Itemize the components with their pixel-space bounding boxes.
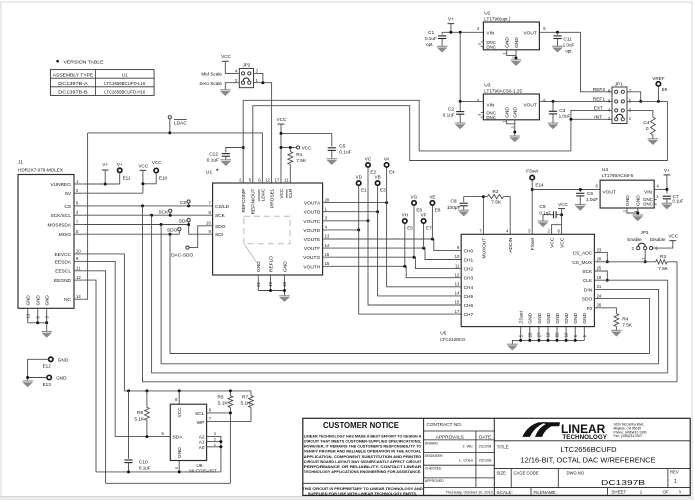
- wire JP3 pin2 to CS_MUX: [644, 250, 646, 262]
- svg-text:0.1uF: 0.1uF: [207, 157, 219, 163]
- svg-text:VF: VF: [421, 212, 427, 217]
- svg-text:L. Chen: L. Chen: [459, 457, 473, 462]
- regulator U3 LT1790ACS6-1.25: [477, 82, 546, 120]
- svg-text:GND: GND: [177, 447, 183, 458]
- svg-text:REFCOMP: REFCOMP: [241, 189, 247, 213]
- svg-text:V+: V+: [117, 162, 123, 167]
- terminal E10 VCC: [143, 160, 168, 184]
- wire JP1 pin3 to C4: [627, 110, 653, 117]
- title block frame: [303, 418, 690, 495]
- svg-text:SCL: SCL: [195, 411, 205, 417]
- svg-text:11: 11: [455, 263, 460, 268]
- svg-text:R5: R5: [217, 395, 223, 401]
- wire R3 to CS bus: [667, 262, 677, 382]
- svg-text:20: 20: [597, 257, 602, 262]
- svg-text:E8: E8: [435, 208, 441, 213]
- svg-text:LT1790ACS6-5: LT1790ACS6-5: [602, 173, 634, 178]
- ground under JP2: [220, 90, 231, 96]
- svg-text:5.1K: 5.1K: [218, 400, 229, 406]
- svg-text:SCK: SCK: [582, 269, 593, 275]
- wire U2 GND pins to ground: [507, 50, 516, 56]
- drawing number fields: [497, 469, 682, 494]
- svg-text:17: 17: [275, 177, 280, 182]
- svg-text:LTC2656BCUFD: LTC2656BCUFD: [561, 445, 617, 454]
- resistor C4 0 ohm: [643, 117, 655, 139]
- svg-text:VERSION TABLE: VERSION TABLE: [64, 59, 104, 64]
- svg-text:0.1uF: 0.1uF: [673, 199, 684, 204]
- op-amp U1 LTC2656BCUFD: [206, 169, 323, 275]
- capacitor C2 0.1uF: [443, 101, 465, 123]
- terminal E5 VH: [402, 212, 414, 230]
- test point LDAC: [168, 116, 187, 133]
- svg-text:12: 12: [265, 177, 270, 182]
- logo Linear Technology: [522, 422, 646, 441]
- svg-text:E13: E13: [43, 382, 52, 387]
- svg-text:C8: C8: [450, 199, 456, 205]
- ground under C9: [538, 221, 548, 227]
- test point CS: [180, 200, 190, 206]
- svg-text:12: 12: [76, 275, 81, 280]
- svg-text:2/21/08: 2/21/08: [479, 445, 492, 449]
- svg-text:DC1397B: DC1397B: [601, 478, 645, 487]
- svg-text:GND: GND: [514, 37, 520, 48]
- svg-text:26: 26: [597, 303, 602, 308]
- wire JP1 EXT INT to REFCOMP route: [571, 110, 612, 119]
- svg-text:VOUT: VOUT: [523, 30, 536, 36]
- connector J1 HDR2X7-079-MOLEX: [18, 160, 84, 323]
- svg-text:24LC025-I/ST: 24LC025-I/ST: [188, 469, 217, 474]
- wire VOUTB to VB: [323, 211, 378, 213]
- svg-text:GND: GND: [564, 312, 570, 323]
- svg-text:DNC: DNC: [486, 115, 496, 120]
- svg-text:21: 21: [597, 284, 602, 289]
- svg-text:CH5: CH5: [464, 294, 474, 300]
- svg-text:E9: E9: [662, 87, 668, 92]
- svg-text:CLK: CLK: [583, 278, 593, 284]
- svg-text:CS: CS: [64, 204, 71, 210]
- svg-text:E12: E12: [43, 364, 52, 369]
- capacitor C8 100pF: [447, 197, 468, 211]
- svg-text:C9: C9: [539, 204, 545, 210]
- svg-text:VE: VE: [429, 194, 435, 199]
- svg-text:VOUTG: VOUTG: [303, 255, 320, 261]
- terminal E14 FSset: [526, 169, 544, 235]
- svg-text:PROSEL: PROSEL: [270, 188, 276, 208]
- svg-text:23: 23: [597, 247, 602, 252]
- power VCC above U5: [558, 202, 568, 234]
- svg-text:13: 13: [455, 282, 460, 287]
- svg-text:21: 21: [256, 281, 261, 286]
- resistor R1 7.5K: [288, 148, 307, 184]
- wire VOUTG to VG and CH2: [323, 257, 462, 268]
- svg-text:7.5K: 7.5K: [296, 158, 307, 164]
- wire REF/IN-OUT route to VREF: [253, 101, 668, 183]
- svg-text:APPROVED: APPROVED: [425, 479, 444, 483]
- svg-text:18: 18: [546, 332, 551, 337]
- wire VA to CH4: [387, 167, 462, 287]
- wire MUXOUT net: [464, 197, 484, 235]
- wire EEPROM VCC rail: [124, 390, 251, 392]
- svg-text:CAGE CODE: CAGE CODE: [514, 470, 539, 475]
- wire REFCOMP route to JP1 INT/EXT: [243, 100, 571, 183]
- wire MOSI-DIN bus: [161, 225, 658, 364]
- jumper JP2: [199, 62, 258, 87]
- svg-text:VA: VA: [384, 156, 391, 161]
- svg-text:GND: GND: [25, 295, 30, 306]
- regulator U4 LT1790ACS6-5: [595, 167, 659, 208]
- ground under C6: [575, 205, 586, 211]
- svg-text:SUPPLIED FOR USE WITH LINEAR T: SUPPLIED FOR USE WITH LINEAR TECHNOLOGY …: [308, 491, 417, 496]
- ground under R4: [611, 330, 622, 336]
- svg-text:GND: GND: [546, 312, 552, 323]
- svg-text:ENGINEER: ENGINEER: [425, 454, 443, 458]
- wire A2 A1 A0 to ground rail: [207, 436, 221, 472]
- svg-text:HDR2X7-079-MOLEX: HDR2X7-079-MOLEX: [18, 167, 63, 172]
- ground under J1: [42, 332, 53, 338]
- wire MISO net: [84, 233, 180, 235]
- svg-text:REF2: REF2: [593, 87, 606, 93]
- svg-text:GND: GND: [573, 312, 579, 323]
- wire MOSI/SDA to SDI net: [84, 224, 189, 226]
- svg-text:VOUTA: VOUTA: [304, 201, 321, 207]
- terminal E11 V+: [117, 162, 131, 184]
- power VCC above JP2: [221, 54, 239, 73]
- svg-text:CH0: CH0: [464, 248, 474, 254]
- svg-text:VC: VC: [365, 156, 372, 161]
- wire SCL row: [207, 413, 231, 483]
- capacitor C5: [328, 144, 352, 159]
- svg-text:EESDA: EESDA: [55, 259, 72, 265]
- svg-text:CS: CS: [180, 200, 187, 206]
- wire SCK net: [84, 214, 213, 216]
- svg-text:28: 28: [527, 332, 532, 337]
- svg-text:SCK/SCL: SCK/SCL: [50, 213, 71, 219]
- svg-text:REFIN/OUT: REFIN/OUT: [251, 188, 257, 214]
- svg-text:VCC: VCC: [277, 117, 287, 122]
- svg-text:SHEET: SHEET: [612, 490, 627, 495]
- svg-text:VIN: VIN: [486, 30, 495, 36]
- svg-text:GND: GND: [282, 261, 288, 272]
- wire VUNREG net: [84, 183, 120, 185]
- svg-text:25: 25: [597, 266, 602, 271]
- svg-text:1: 1: [674, 479, 677, 485]
- wire CS-R3 bus: [143, 206, 678, 382]
- svg-text:Disable: Disable: [650, 237, 666, 242]
- svg-text:14: 14: [455, 291, 460, 296]
- svg-text:VCC: VCC: [668, 234, 678, 239]
- U1 left pin labels: [206, 201, 230, 239]
- ground under E12 E13: [22, 381, 33, 387]
- svg-text:EESCL: EESCL: [55, 269, 71, 275]
- U1 right pin labels: [303, 197, 330, 270]
- svg-text:14: 14: [325, 243, 330, 248]
- svg-text:SDO: SDO: [215, 224, 226, 230]
- svg-text:E7: E7: [426, 226, 432, 231]
- svg-text:LTC2428CG: LTC2428CG: [440, 337, 466, 342]
- svg-text:GND: GND: [528, 312, 534, 323]
- svg-text:JP1: JP1: [615, 82, 623, 87]
- svg-text:VG: VG: [411, 194, 418, 199]
- svg-text:MOSI/SDA: MOSI/SDA: [48, 222, 72, 228]
- test point VCC right of R1: [297, 146, 312, 151]
- ground under C11: [552, 46, 563, 52]
- svg-text:CUSTOMER NOTICE: CUSTOMER NOTICE: [323, 420, 399, 430]
- svg-text:C12: C12: [209, 151, 218, 157]
- ground under U3: [510, 136, 521, 142]
- svg-text:J1: J1: [18, 160, 23, 166]
- svg-text:opt.: opt.: [426, 42, 434, 47]
- svg-text:ASSEMBLY TYPE: ASSEMBLY TYPE: [53, 72, 94, 78]
- svg-text:13: 13: [25, 313, 30, 318]
- capacitor C1 0.1uF opt: [425, 30, 446, 47]
- customer notice text: [302, 420, 423, 496]
- svg-text:NC: NC: [64, 297, 71, 303]
- wire JP2 pin2 to ground: [225, 83, 239, 90]
- svg-text:0.1uF: 0.1uF: [339, 150, 351, 156]
- svg-text:TECHNOLOGY APPLICATIONS ENGINE: TECHNOLOGY APPLICATIONS ENGINEERING FOR …: [304, 469, 422, 474]
- svg-text:MISO: MISO: [59, 232, 72, 238]
- svg-text:E14: E14: [535, 182, 544, 187]
- svg-text:3: 3: [477, 43, 481, 45]
- svg-text:DNC: DNC: [486, 44, 496, 49]
- svg-text:0: 0: [646, 126, 649, 132]
- wire VOUTC to VC: [323, 220, 368, 222]
- wire V+ rail to U2 VIN: [442, 31, 483, 33]
- svg-text:14: 14: [76, 294, 81, 299]
- wire VOUTE to VE and CH0: [323, 239, 462, 250]
- wire J1 ground bus: [28, 322, 47, 324]
- svg-text:2/21/08: 2/21/08: [479, 458, 492, 462]
- svg-text:C4: C4: [643, 120, 649, 126]
- svg-text:12/16-BIT, OCTAL DAC W/REFEREN: 12/16-BIT, OCTAL DAC W/REFERENCE: [521, 456, 656, 465]
- svg-text:DNC: DNC: [643, 202, 653, 207]
- svg-text:V+: V+: [664, 168, 670, 173]
- U5 bottom pins: [518, 310, 588, 340]
- wire 5V net: [84, 192, 143, 194]
- memory U6 24LC025-I/ST: [161, 391, 217, 474]
- ground under C1: [437, 46, 448, 52]
- ground under C2: [455, 123, 466, 129]
- approvals table text: [425, 422, 493, 495]
- terminal E3 VB: [375, 175, 387, 193]
- wire VG to VOUTG: [413, 205, 415, 257]
- svg-text:7.5K: 7.5K: [658, 266, 669, 272]
- svg-text:E1: E1: [361, 188, 367, 193]
- svg-text:U3: U3: [484, 82, 490, 88]
- svg-text:24: 24: [597, 293, 602, 298]
- svg-text:5.1K: 5.1K: [241, 400, 252, 406]
- svg-text:APPROVALS: APPROVALS: [436, 434, 464, 439]
- wire EESCL net: [84, 271, 106, 484]
- svg-text:JP3: JP3: [641, 230, 649, 235]
- svg-text:CS_MUX: CS_MUX: [572, 260, 593, 266]
- svg-text:DWG NO: DWG NO: [567, 470, 585, 475]
- svg-text:CH1: CH1: [464, 258, 474, 264]
- svg-text:1.0uF: 1.0uF: [559, 114, 571, 119]
- svg-text:VREF: VREF: [652, 76, 664, 81]
- svg-text:VCC: VCC: [550, 237, 556, 248]
- wire CS net: [84, 205, 213, 207]
- wire EEVCC net: [84, 254, 125, 391]
- ground under U4: [633, 215, 644, 221]
- wire U3 VOUT REF1 row: [539, 100, 612, 102]
- svg-text:Zero Scale: Zero Scale: [199, 81, 222, 86]
- capacitor C3 1.0uF: [549, 101, 571, 123]
- svg-text:GND: GND: [625, 195, 631, 206]
- svg-text:SIZE: SIZE: [497, 470, 507, 475]
- wire VOUTA to VA: [323, 202, 387, 204]
- svg-text:LDAC: LDAC: [174, 120, 187, 126]
- wire LDAC net: [88, 133, 263, 183]
- svg-text:EEVCC: EEVCC: [54, 252, 71, 258]
- svg-text:CH2: CH2: [464, 267, 474, 273]
- svg-text:LT1790(opt.): LT1790(opt.): [484, 17, 510, 22]
- svg-text:FILENAME:: FILENAME:: [534, 490, 557, 495]
- resistor R4 7.5K: [614, 314, 633, 331]
- wire VC to CH6: [368, 167, 461, 305]
- svg-text:ADCIN: ADCIN: [508, 237, 514, 252]
- svg-text:11: 11: [284, 177, 289, 182]
- power V+ above U2: [448, 16, 455, 32]
- svg-text:MUXOUT: MUXOUT: [481, 238, 487, 259]
- wire U1 SDO to DAC-SDO: [189, 226, 213, 248]
- svg-text:19: 19: [268, 281, 273, 286]
- resistor R2 7.5K: [483, 189, 510, 234]
- svg-text:CONTRACT NO.: CONTRACT NO.: [427, 422, 463, 427]
- capacitor C6 1.0uF: [576, 190, 598, 205]
- svg-text:V+: V+: [448, 16, 454, 21]
- svg-text:VOUT: VOUT: [523, 102, 536, 108]
- svg-text:DC1397B-B: DC1397B-B: [58, 90, 88, 96]
- svg-text:GND: GND: [537, 312, 543, 323]
- wire VCC to C5: [281, 133, 332, 146]
- jumper JP3: [627, 230, 665, 260]
- svg-text:1.0uF: 1.0uF: [563, 42, 575, 47]
- svg-text:GND: GND: [256, 261, 262, 272]
- wire EEGND rail: [96, 471, 221, 473]
- svg-text:15: 15: [455, 300, 460, 305]
- svg-text:VB: VB: [375, 175, 381, 180]
- svg-text:U1: U1: [206, 170, 212, 176]
- svg-text:A0: A0: [199, 445, 205, 450]
- svg-text:SDO: SDO: [167, 228, 178, 234]
- svg-text:C10: C10: [139, 459, 148, 465]
- terminal E8 VE: [429, 194, 441, 212]
- svg-text:V+: V+: [102, 162, 108, 167]
- svg-text:U1: U1: [122, 72, 128, 77]
- wire U1 ground bus: [258, 291, 284, 296]
- terminal E13 GND: [26, 375, 67, 387]
- terminal E6 VG: [411, 194, 423, 212]
- capacitor C11 1.0uF opt: [553, 32, 574, 53]
- svg-text:3: 3: [656, 195, 658, 199]
- svg-text:GND: GND: [636, 195, 642, 206]
- svg-text:C6: C6: [587, 191, 593, 197]
- resistor R5 5.1K: [217, 391, 232, 413]
- svg-text:13: 13: [325, 234, 330, 239]
- wire VCC branch to U5 pin2: [552, 225, 562, 235]
- svg-text:5V: 5V: [65, 191, 72, 197]
- power VCC above U1: [277, 117, 287, 183]
- svg-text:VOUTF: VOUTF: [304, 246, 320, 252]
- wire F0 to R4: [594, 308, 616, 314]
- resistor R6 5.1K: [134, 391, 149, 437]
- svg-text:R2: R2: [492, 189, 498, 195]
- svg-text:VOUTE: VOUTE: [304, 237, 321, 243]
- capacitor C9 0.1uF: [539, 204, 561, 218]
- svg-text:10: 10: [455, 254, 460, 259]
- svg-text:J. Wu: J. Wu: [462, 444, 472, 449]
- svg-text:REF1: REF1: [593, 97, 606, 103]
- svg-text:10: 10: [206, 221, 211, 226]
- svg-text:VCC: VCC: [560, 237, 566, 248]
- svg-text:E4: E4: [389, 170, 395, 175]
- svg-text:R3: R3: [660, 254, 666, 260]
- svg-text:12: 12: [455, 272, 460, 277]
- svg-text:F0: F0: [587, 306, 593, 312]
- svg-text:VOUT: VOUT: [603, 190, 616, 196]
- svg-text:R4: R4: [622, 316, 628, 322]
- svg-text:19: 19: [597, 275, 602, 280]
- svg-text:GND: GND: [44, 295, 49, 306]
- svg-text:GND: GND: [555, 312, 561, 323]
- svg-text:SCALE:: SCALE:: [497, 490, 513, 495]
- svg-text:SDI: SDI: [215, 232, 223, 238]
- wire VB to CH5: [378, 185, 462, 296]
- wire SDO row to bus: [594, 299, 649, 354]
- wire VD to CH7: [359, 185, 462, 314]
- svg-text:Fax: (408)434-0507: Fax: (408)434-0507: [614, 434, 643, 438]
- svg-text:7.5K: 7.5K: [622, 323, 633, 329]
- svg-text:R6: R6: [137, 410, 143, 416]
- wire JP1 pin7 jog: [627, 92, 641, 102]
- svg-text:Enable: Enable: [627, 237, 642, 242]
- wire U5 ground bus: [512, 340, 584, 344]
- test point SDI: [179, 219, 191, 225]
- svg-text:EEGND: EEGND: [54, 278, 72, 284]
- terminal E7 VF: [421, 212, 432, 230]
- svg-text:R7: R7: [242, 395, 248, 401]
- version table: [50, 59, 154, 95]
- jumper JP1: [593, 82, 632, 124]
- wire SCK-CLK bus: [152, 215, 668, 373]
- op-amp U5 LTC2428CG: [440, 234, 594, 341]
- wire EEGND net: [84, 280, 96, 472]
- svg-text:7.5K: 7.5K: [491, 199, 502, 205]
- svg-text:CH6: CH6: [464, 303, 474, 309]
- svg-text:VCC: VCC: [279, 188, 285, 199]
- svg-text:LTC2656BCUFD-L16: LTC2656BCUFD-L16: [104, 81, 145, 87]
- wire VOUTD to VD: [323, 229, 359, 231]
- svg-text:TECHNOLOGY: TECHNOLOGY: [562, 434, 607, 441]
- wire SDA row: [115, 436, 170, 438]
- svg-text:CH3: CH3: [464, 276, 474, 282]
- svg-text:GND: GND: [505, 37, 511, 48]
- svg-text:U5: U5: [440, 331, 446, 337]
- svg-text:20: 20: [325, 197, 330, 202]
- svg-text:VD: VD: [356, 175, 363, 180]
- svg-text:REFLO: REFLO: [268, 256, 274, 272]
- svg-text:CH7: CH7: [464, 312, 474, 318]
- wire SCK jog: [594, 271, 607, 280]
- terminal E4 VA: [384, 156, 395, 174]
- svg-text:VCC: VCC: [302, 146, 312, 151]
- svg-text:0.1uF: 0.1uF: [139, 466, 151, 471]
- svg-text:E11: E11: [123, 175, 131, 180]
- test point DAC-SDO: [171, 246, 193, 259]
- wire MISO-SDO bus: [170, 234, 650, 353]
- svg-text:VCC: VCC: [221, 54, 231, 59]
